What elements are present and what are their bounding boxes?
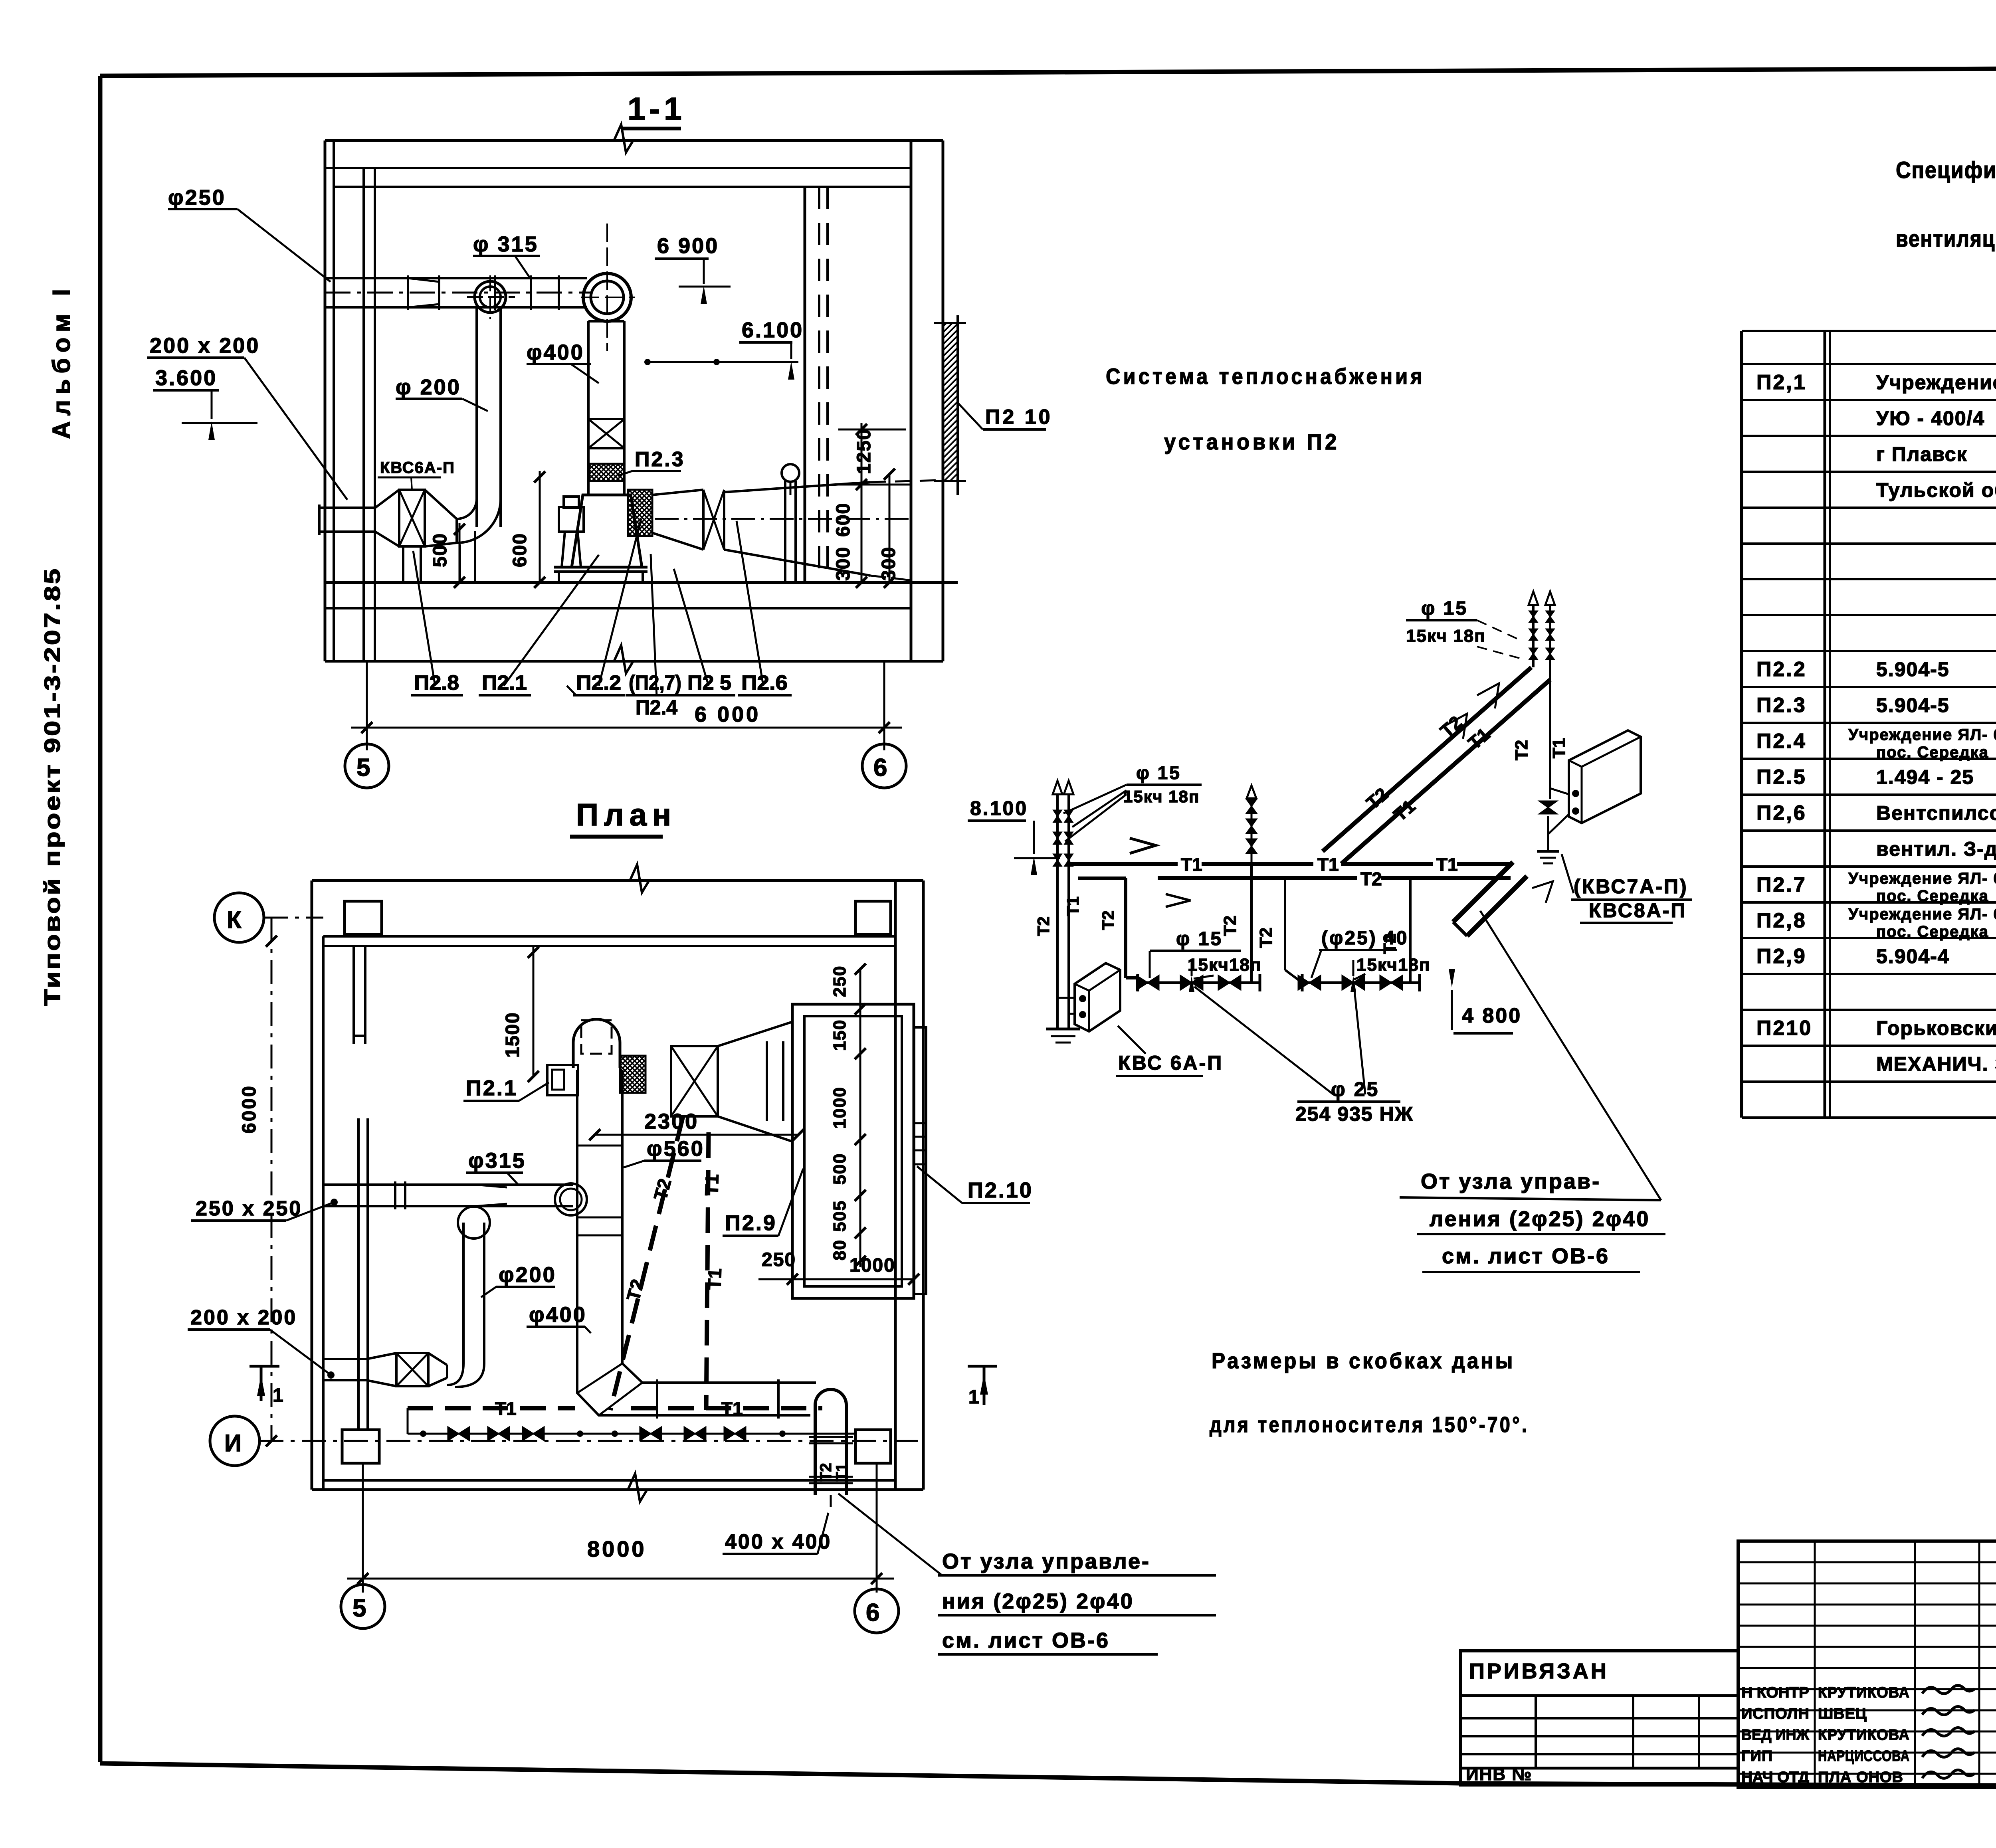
svg-text:5.904-4: 5.904-4 bbox=[1876, 945, 1950, 968]
svg-text:П2.3: П2.3 bbox=[1756, 694, 1807, 717]
svg-text:Типовой проект 901-3-207.85: Типовой проект 901-3-207.85 bbox=[40, 567, 65, 1006]
svg-text:НАРЦИССОВА: НАРЦИССОВА bbox=[1818, 1748, 1910, 1765]
svg-text:П2.8: П2.8 bbox=[414, 671, 459, 694]
svg-text:П2 5: П2 5 bbox=[687, 671, 731, 694]
svg-text:15кч18п: 15кч18п bbox=[1188, 955, 1261, 975]
svg-text:500: 500 bbox=[430, 533, 451, 567]
svg-text:П2.2: П2.2 bbox=[1756, 658, 1807, 681]
svg-text:2300: 2300 bbox=[644, 1110, 699, 1134]
svg-text:Спецификация: Спецификация bbox=[1896, 157, 1996, 183]
svg-text:П2,6: П2,6 bbox=[1756, 801, 1807, 825]
svg-text:пос. Середка: пос. Середка bbox=[1876, 744, 1989, 761]
svg-text:г Плавск: г Плавск bbox=[1876, 443, 1968, 465]
svg-text:ПРИВЯЗАН: ПРИВЯЗАН bbox=[1469, 1659, 1609, 1683]
svg-text:250: 250 bbox=[762, 1249, 796, 1270]
svg-text:Т1: Т1 bbox=[833, 1463, 851, 1482]
svg-text:вентиляционных: вентиляционных bbox=[1896, 226, 1996, 252]
svg-text:1: 1 bbox=[273, 1385, 283, 1406]
svg-text:И: И bbox=[224, 1430, 242, 1456]
svg-text:8000: 8000 bbox=[587, 1536, 647, 1561]
svg-text:Вентспилсский: Вентспилсский bbox=[1876, 802, 1996, 824]
svg-text:1000: 1000 bbox=[849, 1255, 895, 1276]
svg-text:П2.4: П2.4 bbox=[636, 696, 677, 719]
svg-text:6 000: 6 000 bbox=[695, 702, 760, 726]
svg-text:ГИП: ГИП bbox=[1741, 1748, 1773, 1765]
svg-text:КВС8А-П: КВС8А-П bbox=[1589, 899, 1687, 922]
svg-text:1-1: 1-1 bbox=[628, 91, 686, 127]
svg-text:Т1: Т1 bbox=[1063, 896, 1082, 916]
svg-text:15кч18п: 15кч18п bbox=[1356, 955, 1430, 975]
svg-text:8.100: 8.100 bbox=[970, 797, 1028, 819]
svg-text:5.904-5: 5.904-5 bbox=[1876, 694, 1950, 716]
svg-text:Т1: Т1 bbox=[1317, 854, 1339, 875]
svg-text:φ 200: φ 200 bbox=[396, 375, 461, 399]
svg-text:φ 15: φ 15 bbox=[1176, 928, 1223, 950]
svg-text:15кч 18п: 15кч 18п bbox=[1406, 626, 1486, 646]
svg-text:6 900: 6 900 bbox=[657, 234, 719, 258]
svg-text:5: 5 bbox=[352, 1595, 366, 1622]
svg-text:МЕХАНИЧ. З-д: МЕХАНИЧ. З-д bbox=[1876, 1053, 1996, 1075]
svg-text:УЮ - 400/4: УЮ - 400/4 bbox=[1876, 407, 1985, 429]
svg-text:ШВЕЦ: ШВЕЦ bbox=[1818, 1706, 1867, 1722]
svg-text:300: 300 bbox=[878, 546, 899, 581]
svg-text:φ 15: φ 15 bbox=[1136, 762, 1181, 783]
svg-text:250: 250 bbox=[830, 966, 849, 997]
svg-text:φ 315: φ 315 bbox=[473, 232, 539, 256]
svg-text:Учреждение ЯЛ- 61/4: Учреждение ЯЛ- 61/4 bbox=[1848, 870, 1996, 887]
svg-text:1.494 - 25: 1.494 - 25 bbox=[1876, 766, 1974, 788]
svg-text:П2,9: П2,9 bbox=[1756, 945, 1807, 968]
svg-text:Т2: Т2 bbox=[1099, 910, 1117, 930]
svg-text:П2.4: П2.4 bbox=[1756, 730, 1807, 753]
svg-text:Учреждение ЯЛ- 61/4: Учреждение ЯЛ- 61/4 bbox=[1848, 726, 1996, 744]
svg-text:3.600: 3.600 bbox=[155, 366, 217, 390]
svg-text:Т1: Т1 bbox=[1181, 854, 1202, 875]
svg-text:П2.7: П2.7 bbox=[1756, 873, 1807, 896]
svg-text:П2.1: П2.1 bbox=[466, 1076, 518, 1100]
svg-text:φ200: φ200 bbox=[499, 1263, 556, 1287]
svg-text:600: 600 bbox=[509, 533, 531, 567]
svg-text:φ400: φ400 bbox=[529, 1303, 587, 1327]
svg-text:ВЕД ИНЖ: ВЕД ИНЖ bbox=[1741, 1727, 1810, 1743]
svg-text:5.904-5: 5.904-5 bbox=[1876, 658, 1950, 681]
svg-text:П2.6: П2.6 bbox=[741, 671, 788, 694]
svg-text:1250: 1250 bbox=[853, 428, 875, 474]
svg-text:φ 25: φ 25 bbox=[1331, 1078, 1379, 1100]
svg-text:Т1: Т1 bbox=[721, 1398, 743, 1419]
svg-text:600: 600 bbox=[833, 503, 854, 537]
svg-text:Т1: Т1 bbox=[704, 1268, 725, 1290]
svg-text:КРУТИКОВА: КРУТИКОВА bbox=[1818, 1684, 1910, 1701]
svg-text:см. лист ОВ-6: см. лист ОВ-6 bbox=[942, 1628, 1110, 1652]
svg-text:П2 10: П2 10 bbox=[985, 406, 1053, 429]
svg-text:П2.5: П2.5 bbox=[1756, 766, 1807, 789]
svg-text:Горьковский: Горьковский bbox=[1876, 1017, 1996, 1039]
svg-text:КРУТИКОВА: КРУТИКОВА bbox=[1818, 1727, 1910, 1743]
svg-text:ления (2φ25) 2φ40: ления (2φ25) 2φ40 bbox=[1430, 1207, 1650, 1231]
svg-text:6: 6 bbox=[866, 1599, 879, 1626]
svg-text:(КВС7А-П): (КВС7А-П) bbox=[1574, 875, 1688, 898]
svg-text:для теплоносителя 150°-70°.: для теплоносителя 150°-70°. bbox=[1210, 1412, 1529, 1437]
svg-text:150: 150 bbox=[830, 1019, 849, 1051]
svg-text:200 x 200: 200 x 200 bbox=[150, 334, 260, 358]
svg-text:4 800: 4 800 bbox=[1462, 1004, 1522, 1027]
svg-text:План: План bbox=[576, 797, 677, 832]
svg-text:пос. Середка: пос. Середка bbox=[1876, 887, 1989, 905]
svg-text:Т1: Т1 bbox=[701, 1174, 723, 1196]
svg-text:П2.1: П2.1 bbox=[482, 671, 527, 694]
svg-text:От узла управ-: От узла управ- bbox=[1421, 1169, 1601, 1193]
svg-text:Т2: Т2 bbox=[1034, 916, 1053, 936]
svg-text:ПЛА ОНОВ: ПЛА ОНОВ bbox=[1818, 1769, 1903, 1786]
svg-text:Т1: Т1 bbox=[1549, 738, 1569, 758]
svg-text:П210: П210 bbox=[1756, 1017, 1812, 1040]
svg-text:φ 15: φ 15 bbox=[1421, 598, 1468, 619]
svg-text:Тульской обл: Тульской обл bbox=[1876, 479, 1996, 501]
svg-text:Размеры в скобках даны: Размеры в скобках даны bbox=[1212, 1348, 1515, 1373]
svg-text:П2,1: П2,1 bbox=[1756, 371, 1807, 394]
svg-text:вентил. З-д: вентил. З-д bbox=[1876, 838, 1996, 860]
svg-text:505: 505 bbox=[830, 1200, 849, 1232]
svg-text:Система теплоснабжения: Система теплоснабжения bbox=[1106, 364, 1425, 389]
svg-text:Т2: Т2 bbox=[817, 1463, 835, 1482]
svg-text:400 x 400: 400 x 400 bbox=[725, 1530, 832, 1553]
svg-text:Т2: Т2 bbox=[1512, 740, 1531, 760]
svg-text:установки П2: установки П2 bbox=[1164, 429, 1340, 454]
svg-text:1500: 1500 bbox=[502, 1012, 523, 1058]
svg-text:П2.3: П2.3 bbox=[635, 448, 685, 471]
svg-text:Н КОНТР: Н КОНТР bbox=[1741, 1684, 1809, 1701]
svg-text:200 x 200: 200 x 200 bbox=[190, 1306, 297, 1329]
svg-text:Т1: Т1 bbox=[1436, 854, 1458, 875]
svg-text:6: 6 bbox=[873, 754, 887, 782]
svg-text:6000: 6000 bbox=[239, 1084, 260, 1134]
svg-text:П2,8: П2,8 bbox=[1756, 909, 1807, 932]
svg-text:250 x 250: 250 x 250 bbox=[196, 1197, 302, 1220]
svg-text:1: 1 bbox=[968, 1387, 979, 1408]
svg-text:300: 300 bbox=[833, 546, 854, 581]
svg-text:см. лист ОВ-6: см. лист ОВ-6 bbox=[1442, 1244, 1610, 1268]
svg-text:6.100: 6.100 bbox=[742, 318, 804, 342]
svg-text:φ315: φ315 bbox=[468, 1149, 526, 1173]
svg-text:НАЧ ОТД: НАЧ ОТД bbox=[1741, 1769, 1809, 1786]
svg-text:П2.9: П2.9 bbox=[725, 1211, 777, 1235]
svg-text:1000: 1000 bbox=[830, 1086, 849, 1129]
svg-text:φ400: φ400 bbox=[527, 340, 584, 364]
svg-text:5: 5 bbox=[356, 754, 370, 782]
svg-text:Т2: Т2 bbox=[1220, 916, 1240, 936]
svg-text:Т2: Т2 bbox=[1360, 869, 1382, 889]
svg-text:К: К bbox=[227, 906, 242, 933]
svg-text:Альбом I: Альбом I bbox=[48, 283, 75, 439]
svg-text:От узла управле-: От узла управле- bbox=[942, 1549, 1150, 1573]
svg-text:φ250: φ250 bbox=[168, 186, 226, 210]
svg-text:ИНВ №: ИНВ № bbox=[1466, 1765, 1532, 1784]
svg-text:254 935 НЖ: 254 935 НЖ bbox=[1295, 1103, 1414, 1125]
svg-text:пос. Середка: пос. Середка bbox=[1876, 923, 1989, 941]
svg-text:15кч 18п: 15кч 18п bbox=[1123, 787, 1200, 806]
svg-text:Т2: Т2 bbox=[1256, 928, 1276, 948]
svg-text:Т1: Т1 bbox=[495, 1398, 517, 1419]
svg-text:(φ25) 40: (φ25) 40 bbox=[1321, 928, 1408, 949]
svg-text:ИСПОЛН: ИСПОЛН bbox=[1741, 1706, 1810, 1722]
svg-text:80: 80 bbox=[830, 1239, 849, 1260]
svg-text:КВС6А-П: КВС6А-П bbox=[380, 459, 455, 477]
svg-text:КВС 6А-П: КВС 6А-П bbox=[1118, 1052, 1223, 1074]
svg-text:Учреждение ЯЛ- 61/4: Учреждение ЯЛ- 61/4 bbox=[1848, 906, 1996, 923]
svg-text:ния (2φ25) 2φ40: ния (2φ25) 2φ40 bbox=[942, 1589, 1134, 1613]
svg-text:П2.10: П2.10 bbox=[968, 1178, 1033, 1202]
svg-text:Учреждение: Учреждение bbox=[1876, 371, 1996, 394]
svg-text:500: 500 bbox=[830, 1153, 849, 1185]
